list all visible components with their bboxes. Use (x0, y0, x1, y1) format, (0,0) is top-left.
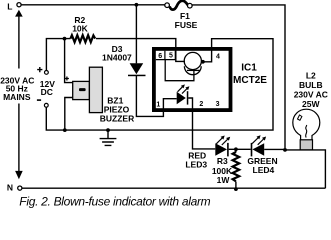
lamp highlight (298, 115, 302, 120)
lamp L2 base (300, 140, 312, 150)
svg-text:MAINS: MAINS (3, 92, 31, 102)
LED3 red (215, 143, 227, 156)
buzzer plus sign (65, 77, 69, 81)
diode D3 (130, 63, 144, 74)
arrow down on N rail (15, 171, 23, 179)
ground (100, 130, 117, 145)
wire LED4 to bulb node (264, 148, 285, 150)
svg-text:1W: 1W (217, 175, 231, 185)
terminal L circle (17, 3, 21, 7)
svg-text:FUSE: FUSE (175, 20, 198, 30)
battery plus sign (37, 67, 42, 72)
LED3 arrows (216, 136, 230, 146)
node dot collector (201, 60, 205, 64)
fuse F1 squiggle (170, 1, 188, 10)
svg-text:2: 2 (199, 101, 203, 108)
node dot D3 top (135, 3, 139, 7)
svg-text:L: L (7, 1, 12, 11)
LED inside IC (177, 92, 186, 104)
transistor base loop from pin 6 (165, 60, 194, 81)
node dot bulb junction (283, 148, 287, 152)
resistor R2 (71, 35, 96, 42)
wire bottom rail from minus terminal to pin4 loop (46, 39, 273, 130)
svg-text:25W: 25W (302, 99, 320, 109)
node dot ground junction (106, 128, 110, 132)
lamp filament (306, 125, 307, 138)
svg-text:MCT2E: MCT2E (233, 75, 267, 86)
svg-text:N: N (7, 183, 13, 193)
LED IC arrows (178, 84, 190, 93)
node dot LED3-R3 (234, 147, 238, 151)
wire 12V+ feed to R2 and pin 5 (46, 39, 185, 71)
svg-text:BULB: BULB (299, 80, 323, 90)
wire left rail upper (18, 16, 20, 68)
svg-text:4: 4 (216, 54, 220, 61)
wire fuse to right corner and down (192, 5, 285, 148)
wire R3 stubs (235, 149, 237, 189)
op-coupler IC1 box (154, 49, 231, 110)
svg-text:BUZZER: BUZZER (100, 114, 134, 124)
svg-text:LED3: LED3 (185, 160, 207, 170)
fuse F1 right circle (188, 3, 193, 8)
svg-text:5: 5 (169, 53, 173, 60)
wire buzzer plus branch (65, 39, 73, 83)
svg-text:IC1: IC1 (241, 63, 257, 74)
arrow up on L rail (15, 10, 23, 17)
battery minus sign (37, 99, 41, 101)
node dot R2 left / buzzer branch (63, 37, 67, 41)
transistor base chord (187, 69, 200, 71)
battery - terminal circle (44, 103, 48, 107)
buzzer BZ1 body (89, 67, 102, 112)
terminal N circle (18, 186, 22, 190)
lamp L2 glass (293, 109, 320, 140)
node dot R3 bottom (234, 187, 238, 191)
svg-text:1N4007: 1N4007 (102, 53, 132, 63)
wire top L to fuse (21, 4, 165, 6)
svg-text:DC: DC (41, 87, 53, 97)
buzzer BZ1 bar (79, 88, 86, 91)
svg-text:1: 1 (156, 102, 160, 109)
LED4 green (251, 143, 253, 157)
transistor lower arc (184, 66, 201, 74)
svg-text:10K: 10K (72, 23, 88, 33)
battery + terminal circle (45, 71, 49, 75)
wire LED3 to LED4 (229, 148, 251, 150)
wire buzzer minus branch (65, 98, 73, 131)
wire left rail lower (18, 104, 20, 172)
wire pin2 cathode to LED3 (188, 98, 215, 149)
wire bulb row and right rail down (285, 150, 325, 188)
svg-text:6: 6 (158, 53, 162, 60)
svg-text:L2: L2 (306, 70, 316, 80)
svg-text:R3: R3 (217, 156, 228, 166)
LED4 arrows (252, 135, 266, 145)
svg-text:Fig. 2. Blown-fuse indicator w: Fig. 2. Blown-fuse indicator with alarm (19, 194, 210, 208)
transistor Q circle (184, 52, 201, 69)
svg-text:230V AC: 230V AC (294, 89, 328, 99)
wire bottom N rail (22, 187, 326, 189)
svg-text:LED4: LED4 (253, 165, 275, 175)
buzzer BZ1 small box (73, 81, 90, 99)
pin boxes 6 and 5 (156, 51, 176, 60)
wire D3 rail (136, 5, 176, 117)
svg-text:3: 3 (216, 101, 220, 108)
resistor R3 (233, 152, 240, 181)
node dot buzzer minus on bottom rail (63, 128, 67, 132)
fuse F1 left circle (165, 3, 170, 8)
